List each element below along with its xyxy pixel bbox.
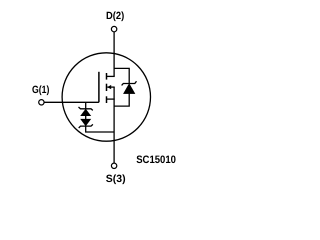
svg-text:S(3): S(3) <box>106 173 126 185</box>
svg-text:SC15010: SC15010 <box>136 154 176 166</box>
wire diode branch top jog <box>114 68 129 83</box>
channel drain bar <box>106 73 108 80</box>
zener Z2 cathode bar <box>79 124 93 128</box>
svg-text:D(2): D(2) <box>106 10 124 22</box>
wire source stub <box>107 98 115 100</box>
svg-text:G(1): G(1) <box>32 84 49 96</box>
MOSFET body circle <box>62 53 150 141</box>
terminal D pin circle <box>111 26 116 31</box>
arrowhead body contact <box>107 85 111 89</box>
terminal S pin circle <box>111 163 116 168</box>
wire body arrow line <box>107 86 115 88</box>
wire drain stub <box>107 75 115 77</box>
wire gate horizontal <box>44 101 99 103</box>
wire diode branch bottom return <box>114 94 129 107</box>
channel body bar <box>106 84 108 91</box>
zener Z1 cathode bar <box>79 107 93 110</box>
diode body-zener cathode bar <box>122 81 137 85</box>
zener Z1 triangle <box>81 109 91 116</box>
diode body-zener triangle <box>124 84 135 94</box>
wire drain vertical <box>113 32 115 76</box>
wire gate-zener branch <box>85 102 87 108</box>
zener Z2 triangle <box>81 119 91 126</box>
wire source vertical <box>113 87 115 163</box>
wire zener bottom to source <box>86 126 114 132</box>
wire zener mid connector <box>85 116 87 120</box>
channel source bar <box>106 96 108 103</box>
gate plate <box>98 72 100 103</box>
terminal G pin circle <box>39 100 44 105</box>
